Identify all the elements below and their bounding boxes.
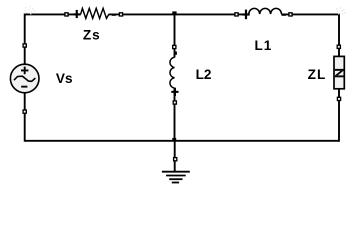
svg-text:Vs: Vs <box>56 71 73 86</box>
wire L2 branch lower <box>174 88 176 141</box>
wire top rail middle segment <box>109 13 249 15</box>
wire L2 branch upper <box>174 14 176 57</box>
wire left rail lower <box>24 93 26 142</box>
inductor L2 (vertical coil) <box>170 57 175 88</box>
ground symbol <box>162 172 190 183</box>
wire right rail lower <box>338 89 340 142</box>
wire left rail upper <box>24 14 26 65</box>
terminal square: source Vs bottom pin <box>23 110 26 113</box>
wire right rail upper <box>338 14 340 57</box>
inductor L2 plus polarity mark <box>171 88 178 96</box>
node junction top (dot) <box>172 11 176 14</box>
svg-text:ZL: ZL <box>308 67 327 82</box>
source Vs (AC voltage source) <box>10 64 39 93</box>
terminal square: impedance ZL bottom pin <box>337 97 340 100</box>
inductor L2 minus polarity mark <box>175 52 177 55</box>
faint drag speckles top-left <box>24 6 35 14</box>
wire bottom rail <box>25 140 339 142</box>
resistor Zs minus polarity mark <box>112 14 116 16</box>
impedance ZL (box with Z glyph) <box>334 56 344 88</box>
svg-text:L2: L2 <box>196 67 212 82</box>
resistor Zs (zigzag) <box>81 8 109 18</box>
faint drag speckles top-right <box>336 7 345 14</box>
resistor Zs plus polarity mark <box>74 10 80 18</box>
wire ground stem <box>174 141 176 172</box>
terminal square: inductor L1 right pin <box>289 13 292 16</box>
inductor L1 (horizontal coil) <box>249 8 282 14</box>
wire top rail right segment <box>281 13 339 15</box>
inductor L1 minus polarity mark <box>282 14 286 16</box>
terminal square: resistor Zs right pin <box>119 13 122 16</box>
terminal square: inductor L2 bottom pin <box>173 101 176 104</box>
terminal square: source Vs top pin <box>23 44 26 47</box>
wire top rail left segment <box>25 13 81 15</box>
terminal square: resistor Zs left pin <box>65 13 68 16</box>
inductor L1 plus polarity mark <box>242 10 249 20</box>
svg-text:Zs: Zs <box>83 28 101 43</box>
terminal square: impedance ZL top pin <box>337 45 340 48</box>
node junction bottom (dot) <box>172 138 176 141</box>
terminal square: inductor L1 left pin <box>235 13 238 16</box>
terminal square: inductor L2 top pin <box>173 45 176 48</box>
terminal square: ground pin <box>174 158 177 161</box>
svg-text:L1: L1 <box>255 38 273 53</box>
